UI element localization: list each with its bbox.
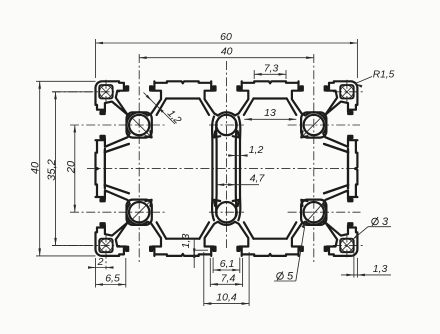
dim 10,4 (203, 252, 205, 306)
centerline horizontal mid axis (87, 168, 356, 170)
core boss with bore Ø5 at (30,30) (216, 202, 236, 222)
svg-text:7,4: 7,4 (221, 272, 236, 284)
dim 6,5 (95, 271, 97, 288)
dim 13 (244, 118, 296, 120)
leader dia5 (296, 226, 305, 281)
svg-text:40: 40 (30, 161, 42, 174)
profile outer contour (96, 81, 358, 256)
centerline middle bore column (226, 61, 228, 248)
corner screw port Ø3 at (58,2) (340, 85, 354, 99)
svg-text:60: 60 (220, 31, 232, 43)
core boss with bore Ø5 at (30,10) (216, 115, 236, 135)
centerline cross of corner screw port at (58,38) (333, 244, 363, 246)
dim 2 (95, 258, 97, 271)
svg-text:R1,5: R1,5 (373, 70, 395, 81)
core boss with bore Ø5 at (50,10) (301, 112, 326, 137)
core boss with bore Ø5 at (50,30) (301, 200, 326, 225)
dim 1,2 diagonal (144, 93, 176, 125)
svg-text:7,3: 7,3 (264, 62, 279, 74)
svg-text:35,2: 35,2 (46, 159, 58, 180)
svg-text:10,4: 10,4 (216, 291, 237, 303)
dim 20 (74, 125, 76, 212)
dim 1,2 web (228, 155, 248, 157)
corner screw port Ø3 at (2,2) (99, 85, 113, 99)
svg-text:3: 3 (382, 216, 389, 228)
svg-text:1,2: 1,2 (249, 144, 264, 156)
diagonal hatch line through bore at (50,10) (302, 114, 325, 137)
centerline cross of corner screw port at (2,38) (52, 244, 120, 246)
svg-text:1,3: 1,3 (373, 263, 388, 275)
centerline left bore column (138, 54, 140, 263)
svg-text:2: 2 (97, 256, 104, 268)
table undersides and slot flank ribs (166, 97, 199, 99)
svg-text:4,7: 4,7 (250, 173, 266, 185)
diagonal hatch line through bore at (10,30) (128, 201, 151, 224)
dim 35,2 (52, 91, 92, 93)
svg-text:1,3: 1,3 (180, 234, 192, 249)
dim 7,4 (209, 258, 211, 287)
centerline lower bore row (70, 211, 165, 213)
corner screw port Ø3 at (2,38) (99, 239, 113, 253)
dim 40 left (36, 80, 96, 82)
diagonal hatch line through bore at (10,10) (128, 114, 151, 137)
dim 6,1 (212, 258, 214, 274)
centerline cross of corner screw port at (58,2) (333, 91, 363, 93)
centerline cross of corner screw port at (2,2) (52, 91, 120, 93)
corner screw port Ø3 at (58,38) (340, 239, 354, 253)
dim 7,3 (253, 70, 255, 79)
leader dia3 (352, 227, 368, 240)
core boss with bore Ø5 at (10,10) (127, 112, 152, 137)
dim 1,3 lip (194, 249, 208, 251)
central web walls (212, 117, 214, 221)
svg-text:5: 5 (287, 271, 294, 283)
svg-text:6,5: 6,5 (105, 272, 120, 284)
leader R1,5 (355, 77, 372, 84)
dim 60 (95, 39, 97, 78)
svg-text:40: 40 (221, 46, 233, 58)
core boss with bore Ø5 at (10,30) (127, 200, 152, 225)
dim 4,7 (217, 184, 259, 186)
dim 40 top (139, 57, 314, 59)
centerline upper bore row (70, 124, 165, 126)
centerline right bore column (313, 54, 315, 263)
svg-text:6,1: 6,1 (220, 258, 235, 270)
svg-text:20: 20 (66, 160, 78, 174)
dim 1,3 right (353, 252, 355, 278)
svg-text:13: 13 (264, 107, 276, 119)
